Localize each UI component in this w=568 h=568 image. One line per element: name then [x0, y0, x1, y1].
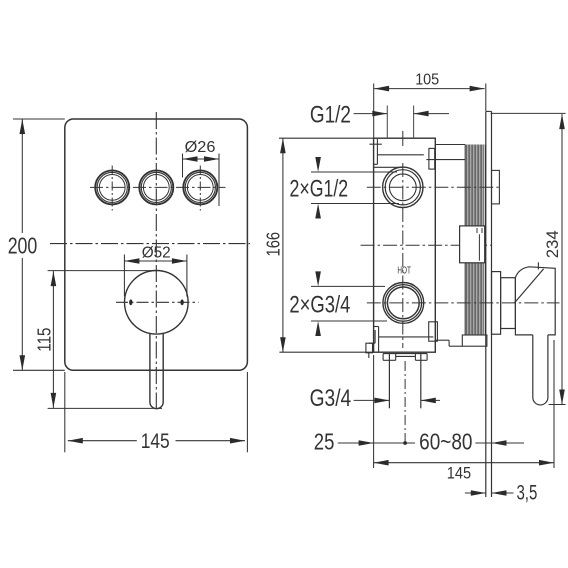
- knob 3: [183, 170, 217, 204]
- bottom port (2xG3/4, HOT): [383, 283, 424, 324]
- svg-text:115: 115: [35, 328, 55, 352]
- knob 2: [139, 170, 173, 204]
- locking box on sleeve: [460, 226, 485, 263]
- dimension 115: [48, 271, 162, 409]
- handle screw dot right: [180, 299, 183, 305]
- dimension D52: [124, 255, 186, 297]
- body mid horizontal centerline: [361, 244, 492, 246]
- svg-text:G1/2: G1/2: [310, 101, 351, 128]
- svg-text:HOT: HOT: [397, 265, 411, 276]
- bottom left ear: [366, 343, 373, 353]
- knob 3 crosshair: [199, 166, 201, 211]
- dimension 166: [279, 138, 374, 352]
- top port (2xG1/2): [383, 167, 423, 207]
- sleeve boundaries: [464, 145, 466, 336]
- dimension 145 side: [374, 340, 554, 468]
- handle lever diagonal: [515, 269, 544, 303]
- sleeve nut: [462, 335, 487, 346]
- svg-text:166: 166: [263, 232, 283, 257]
- front plate: [65, 119, 248, 370]
- dimension G3/4: [354, 399, 390, 401]
- top boss step lines: [369, 139, 423, 167]
- lever: [150, 334, 163, 409]
- G1/2 top stub: [386, 106, 388, 139]
- valve body: [374, 138, 436, 352]
- svg-text:2×G3/4: 2×G3/4: [289, 292, 350, 319]
- handle escutcheon circle: [125, 271, 189, 335]
- dimension 60~80: [374, 442, 415, 444]
- svg-text:145: 145: [447, 464, 471, 483]
- knob 1 crosshair: [111, 166, 113, 211]
- outlet pipe: [388, 354, 390, 409]
- dimension 3,5: [465, 492, 486, 494]
- stub centerline tick: [402, 131, 404, 146]
- handle body: [515, 267, 555, 335]
- dimension 200: [13, 119, 65, 370]
- svg-text:Ø26: Ø26: [185, 139, 216, 156]
- svg-text:145: 145: [141, 430, 170, 453]
- svg-text:3,5: 3,5: [516, 482, 537, 505]
- bottom hex nuts: [383, 354, 427, 361]
- plate vertical centerline: [155, 112, 157, 409]
- top port horizontal centerline: [367, 186, 500, 188]
- HOT port horizontal centerline: [367, 302, 560, 304]
- svg-text:G3/4: G3/4: [310, 385, 352, 412]
- top connector line: [426, 159, 465, 161]
- dimension 145 front: [65, 372, 248, 452]
- svg-text:25: 25: [314, 428, 335, 454]
- wall plate: [485, 111, 487, 497]
- dimension D26: [183, 154, 220, 207]
- handle grip: [533, 335, 548, 405]
- knob 1: [95, 170, 129, 204]
- knob row horizontal centerline: [90, 186, 226, 188]
- handle flange: [492, 272, 501, 335]
- svg-text:Ø52: Ø52: [142, 245, 171, 262]
- bottom elbow: [435, 340, 462, 346]
- svg-text:105: 105: [415, 72, 439, 89]
- handle circle horizontal centerline: [116, 301, 199, 303]
- bottom right tab: [429, 322, 438, 341]
- handle cylinder: [501, 278, 516, 329]
- svg-text:60~80: 60~80: [419, 428, 472, 454]
- dimension 105: [374, 84, 486, 139]
- dimension G1/2 leader: [354, 113, 388, 115]
- outlet pipe centerline: [404, 361, 406, 443]
- body vertical centerline: [402, 163, 404, 348]
- sleeve top: [435, 144, 465, 146]
- wall outlet stub: [492, 170, 500, 204]
- svg-text:234: 234: [543, 230, 562, 258]
- bottom boss step lines: [369, 327, 434, 359]
- handle screw dot left: [129, 299, 132, 305]
- plate horizontal centerline: [50, 243, 250, 245]
- dimension 25 leader: [338, 442, 374, 444]
- dimension 234: [491, 113, 566, 404]
- svg-text:2×G1/2: 2×G1/2: [290, 175, 349, 202]
- top right tab: [429, 148, 435, 169]
- svg-text:200: 200: [8, 233, 38, 259]
- handle top tick: [537, 262, 539, 269]
- dimension 2xG1/2: [311, 158, 399, 218]
- dimension 2xG3/4: [311, 272, 387, 335]
- threaded sleeve ribs: [467, 145, 484, 336]
